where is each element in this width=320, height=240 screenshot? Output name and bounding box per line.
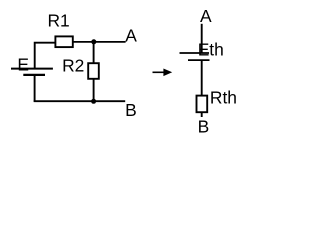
wire A to battery (201, 24, 203, 53)
wire R2 to bottom node (93, 79, 95, 101)
battery Eth short plate (188, 59, 210, 61)
svg-text:A: A (200, 6, 212, 26)
svg-text:R2: R2 (62, 55, 84, 75)
resistor R2 (88, 63, 99, 79)
wire node to R2 (93, 42, 95, 63)
wire battery to bottom (34, 76, 36, 102)
battery E short plate (23, 74, 45, 76)
wire battery to Rth (201, 61, 203, 96)
resistor Rth (197, 96, 208, 113)
arrow (153, 71, 166, 73)
resistor R1 (55, 36, 72, 47)
svg-text:Eth: Eth (198, 39, 224, 59)
svg-text:B: B (125, 100, 137, 120)
svg-text:A: A (125, 25, 137, 45)
node dot top (91, 39, 96, 44)
wire top-left corner to R1 (35, 43, 55, 68)
node dot bottom (91, 99, 96, 104)
svg-text:E: E (17, 55, 29, 75)
wire R1 to node A (74, 41, 126, 43)
bottom wire (34, 100, 126, 102)
svg-text:Rth: Rth (210, 87, 237, 107)
svg-text:B: B (198, 116, 210, 136)
battery Eth long plate (180, 52, 210, 54)
wire Rth to B (201, 112, 203, 117)
svg-text:R1: R1 (48, 10, 70, 30)
battery E long plate (11, 68, 53, 70)
